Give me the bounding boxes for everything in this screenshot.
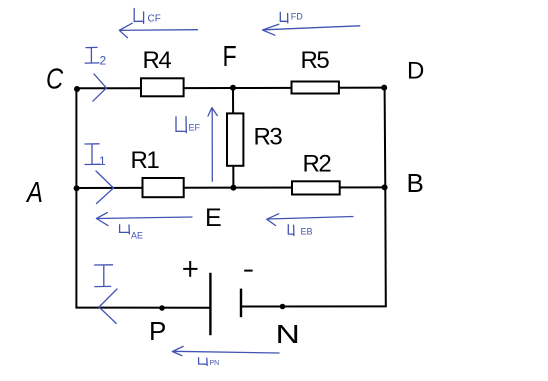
svg-text:A: A (25, 176, 43, 209)
voltage label U_AE (U glyph) (120, 225, 130, 234)
wire B down to bottom-right corner (384, 187, 387, 306)
wire C to F (top row left) (76, 87, 233, 89)
svg-text:EB: EB (301, 227, 313, 237)
voltage arrow U_EB (points left) (267, 214, 353, 226)
wire D to B (right vertical upper) (384, 88, 387, 188)
svg-text:N: N (276, 321, 300, 349)
voltage label U_EF (U glyph) (176, 117, 186, 133)
wire F to D (top row right) (233, 87, 384, 89)
svg-text:R1: R1 (131, 147, 160, 174)
svg-text:1: 1 (99, 154, 106, 168)
current label I2 (I glyph) (85, 47, 99, 63)
node N junction dot (280, 304, 286, 310)
wire A to E (middle row left) (76, 187, 233, 189)
voltage arrow U_CF (points left) (119, 23, 197, 37)
voltage label U_PN (U glyph) (199, 358, 208, 366)
current arrowhead I1 on wire A (points right) (96, 171, 114, 204)
voltage arrow U_AE (points left) (96, 213, 192, 226)
node P junction dot (159, 305, 165, 311)
svg-text:FD: FD (291, 12, 303, 22)
svg-text:R5: R5 (301, 47, 330, 74)
voltage arrow U_FD (points left) (263, 24, 360, 35)
current label I1 (I glyph) (85, 144, 100, 165)
battery minus sign (244, 270, 252, 272)
current arrowhead I on bottom wire (points left) (99, 289, 117, 323)
svg-text:D: D (407, 58, 424, 85)
wire bottom-left corner to battery positive plate (75, 307, 210, 309)
wire E to B (middle row right) (233, 186, 384, 188)
resistor R3 (227, 113, 243, 165)
voltage label U_FD (U glyph) (280, 12, 288, 22)
wire F to E (vertical through R3) (232, 88, 234, 188)
svg-text:F: F (223, 39, 237, 72)
svg-text:E: E (205, 204, 222, 232)
battery positive plate (long) (209, 273, 211, 335)
resistor R1 (143, 178, 184, 197)
node A junction dot (74, 185, 80, 191)
svg-text:PN: PN (210, 360, 220, 367)
voltage label U_EB (U glyph) (288, 225, 294, 236)
resistor R5 (292, 82, 339, 94)
svg-text:R2: R2 (303, 151, 332, 178)
voltage arrow U_EF (points up) (208, 108, 217, 182)
svg-text:2: 2 (100, 54, 107, 68)
node D junction dot (381, 85, 387, 91)
svg-text:C: C (46, 62, 64, 95)
current arrowhead I2 on wire C (points right) (93, 74, 107, 101)
wire A down to bottom-left corner (75, 188, 77, 308)
svg-text:P: P (149, 316, 166, 346)
node C junction dot (74, 86, 80, 92)
svg-text:R4: R4 (143, 47, 172, 74)
battery plus sign (183, 261, 197, 277)
battery negative plate (short) (240, 289, 242, 318)
svg-text:R3: R3 (254, 124, 283, 151)
resistor R4 (141, 78, 184, 96)
node F junction dot (230, 85, 236, 91)
node E junction dot (230, 185, 236, 191)
svg-text:B: B (407, 168, 424, 198)
resistor R2 (292, 181, 340, 194)
svg-text:CF: CF (148, 14, 161, 25)
voltage label U_CF (U glyph) (134, 9, 143, 24)
wire battery negative plate to bottom-right corner (241, 305, 387, 307)
node B junction dot (382, 184, 388, 190)
svg-text:AE: AE (131, 231, 143, 241)
current label I (bottom, I glyph) (95, 265, 113, 287)
wire C to A (left vertical upper) (75, 88, 77, 188)
svg-text:EF: EF (189, 123, 201, 133)
voltage arrow U_PN (points left) (172, 346, 279, 355)
